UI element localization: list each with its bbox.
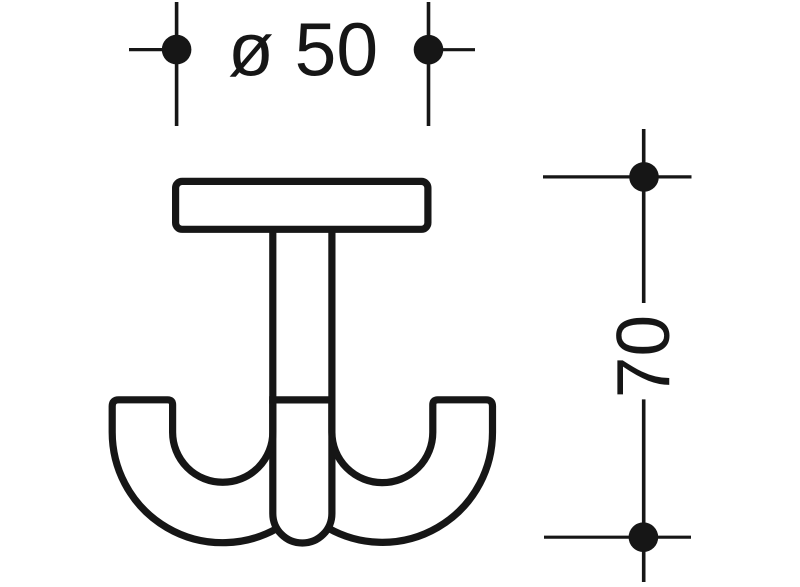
svg-text:ø 50: ø 50 xyxy=(228,7,378,91)
svg-text:70: 70 xyxy=(601,315,685,398)
